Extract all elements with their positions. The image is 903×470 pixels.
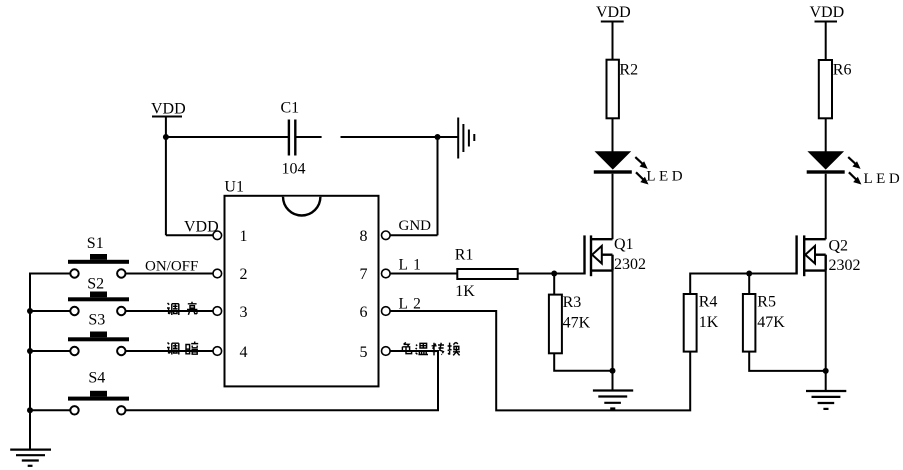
svg-text:S2: S2 — [87, 276, 104, 293]
svg-text:1K: 1K — [455, 283, 475, 300]
svg-text:VDD: VDD — [810, 4, 845, 21]
svg-text:R5: R5 — [757, 294, 776, 311]
svg-text:7: 7 — [360, 266, 368, 283]
wire junction down to R5 — [748, 274, 750, 295]
svg-text:1: 1 — [240, 228, 248, 245]
svg-text:L2: L2 — [399, 295, 427, 312]
svg-text:1K: 1K — [699, 314, 719, 331]
wire junction down to R3 — [553, 274, 555, 295]
wire pin8 to riser — [391, 234, 438, 236]
wire LED2 to Q2 drain — [825, 174, 827, 240]
label 调暗 (dim-down), hand-drawn glyphs — [167, 342, 198, 355]
svg-text:6: 6 — [360, 304, 368, 321]
svg-text:8: 8 — [360, 228, 368, 245]
pin 3 circle — [213, 307, 222, 316]
resistor R1 — [457, 269, 517, 279]
svg-text:L1: L1 — [399, 257, 427, 274]
wire R6 to LED2 — [825, 118, 827, 152]
svg-text:47K: 47K — [563, 314, 591, 331]
wire LED1 to Q1 drain — [612, 174, 614, 240]
node junction at GND riser — [435, 134, 441, 140]
svg-text:Q1: Q1 — [614, 236, 634, 253]
wire R3 bottom to source node — [554, 353, 612, 371]
svg-text:2302: 2302 — [614, 256, 646, 273]
svg-text:VDD: VDD — [151, 101, 186, 118]
wire S1 to pin2 — [126, 273, 213, 275]
svg-text:S4: S4 — [88, 370, 105, 387]
pin 5 circle — [382, 347, 391, 356]
wire pin6 L2 route — [391, 311, 691, 410]
VDD rail (middle, for R2) — [601, 22, 624, 60]
wire VDD riser to pin1 — [166, 234, 213, 236]
svg-text:5: 5 — [360, 344, 368, 361]
ground (below Q1) — [593, 391, 633, 409]
pin 7 circle — [382, 269, 391, 278]
wire R4 top to Q2 gate — [690, 274, 796, 295]
IC U1 body — [225, 196, 379, 387]
wire Q2 source down to ground — [825, 271, 827, 391]
wire Q1 source down to ground — [612, 271, 614, 391]
IC notch — [283, 197, 320, 216]
wire R2 to LED1 — [612, 118, 614, 152]
svg-text:R6: R6 — [833, 62, 852, 79]
wire to top ground (with gap) — [341, 136, 458, 138]
svg-text:R3: R3 — [563, 294, 582, 311]
svg-text:U1: U1 — [224, 179, 244, 196]
switch S1 — [29, 254, 129, 278]
switch S4 — [30, 391, 129, 415]
wire S2 to pin3 — [126, 310, 213, 312]
svg-text:2302: 2302 — [829, 257, 861, 274]
svg-text:VDD: VDD — [184, 219, 219, 236]
svg-text:Q2: Q2 — [829, 237, 849, 254]
svg-text:GND: GND — [399, 218, 432, 234]
resistor R3 — [549, 295, 562, 354]
pin 4 circle — [213, 347, 222, 356]
node S4 tap — [27, 407, 33, 413]
node junction VDD/C1 — [163, 134, 169, 140]
wire C1 right lead — [295, 136, 321, 138]
transistor Q2 — [797, 235, 826, 276]
resistor R6 — [819, 60, 832, 118]
switch S2 — [30, 292, 129, 316]
wire pin7 to R1 — [391, 273, 458, 275]
svg-text:C1: C1 — [281, 100, 300, 117]
wire S4 to pin5 riser — [126, 351, 438, 410]
node S3 tap — [27, 348, 33, 354]
ground (bottom left) — [10, 450, 51, 466]
wire R1 to Q1 gate — [518, 273, 585, 275]
svg-text:4: 4 — [240, 344, 248, 361]
wire VDD to C1 — [166, 136, 289, 138]
svg-text:ON/OFF: ON/OFF — [145, 259, 198, 275]
pin 8 circle — [382, 231, 391, 240]
resistor R2 — [607, 60, 619, 119]
left bus wire — [29, 274, 31, 450]
pin 6 circle — [382, 307, 391, 316]
node source/R3 junction — [610, 368, 616, 374]
wire GND riser down to pin 8 — [437, 137, 439, 235]
resistor R5 — [743, 294, 756, 352]
power rail VDD (left, for U1) — [152, 117, 182, 236]
VDD rail (right, for R6) — [815, 22, 838, 61]
svg-text:S1: S1 — [87, 235, 104, 252]
svg-text:R1: R1 — [455, 247, 474, 264]
wire R5 bottom to Q2 source node — [749, 352, 826, 371]
pin 1 circle — [213, 231, 222, 240]
switch S3 — [30, 332, 129, 356]
svg-text:VDD: VDD — [596, 4, 631, 21]
svg-text:3: 3 — [240, 304, 248, 321]
node Q2 source junction — [823, 368, 829, 374]
ground (top right, rotated) — [458, 118, 474, 159]
ground (below Q2) — [806, 391, 846, 409]
svg-text:104: 104 — [282, 161, 306, 178]
node S2 tap — [27, 308, 33, 314]
svg-text:2: 2 — [240, 266, 248, 283]
resistor R4 — [684, 294, 697, 352]
pin 2 circle — [213, 269, 222, 278]
svg-text:R4: R4 — [699, 294, 718, 311]
label 色温转换 (color-temp switch), hand-drawn glyphs — [402, 342, 460, 355]
LED D1 — [594, 151, 649, 184]
transistor Q1 — [585, 235, 613, 276]
node R4/R5/gate junction — [746, 271, 752, 277]
LED D2 — [807, 151, 862, 184]
svg-text:R2: R2 — [619, 62, 638, 79]
wire S3 to pin4 — [126, 350, 213, 352]
svg-text:47K: 47K — [757, 314, 785, 331]
svg-text:S3: S3 — [88, 312, 105, 329]
svg-text:LED: LED — [864, 171, 903, 187]
label 调亮 (dim-up), hand-drawn glyphs — [167, 302, 197, 315]
svg-text:LED: LED — [646, 169, 686, 185]
capacitor C1 — [289, 120, 295, 156]
node R1/R3/gate junction — [551, 271, 557, 277]
